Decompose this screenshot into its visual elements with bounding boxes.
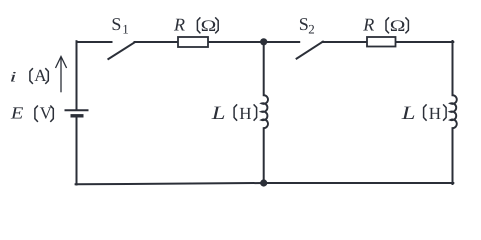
svg-text:S: S [299,14,309,34]
svg-text:2: 2 [308,22,315,37]
svg-text:H: H [429,104,441,123]
svg-text:A: A [34,66,47,85]
svg-text:R: R [173,15,185,35]
svg-text:V: V [40,104,53,123]
svg-text:Ω: Ω [390,18,406,35]
svg-text:R: R [362,15,374,35]
svg-text:L: L [401,103,416,124]
svg-text:S: S [111,14,121,34]
svg-text:i: i [10,70,17,86]
svg-text:1: 1 [122,22,129,37]
svg-text:L: L [211,103,226,124]
svg-text:E: E [10,104,24,123]
svg-text:H: H [239,104,251,123]
svg-text:Ω: Ω [201,18,217,35]
